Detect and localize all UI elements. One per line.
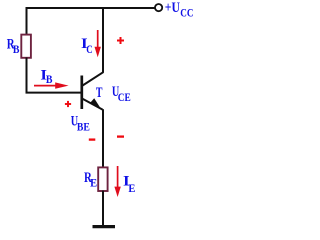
ground <box>93 225 116 228</box>
wire collector <box>102 8 104 73</box>
current arrow IE <box>117 166 119 187</box>
svg-text:E: E <box>90 176 97 190</box>
svg-text:C: C <box>86 42 92 56</box>
wire left lower <box>26 58 28 94</box>
svg-text:B: B <box>46 72 53 86</box>
minus sign emitter-right <box>117 135 124 137</box>
terminal +Ucc <box>155 4 162 11</box>
resistor RE <box>98 167 107 191</box>
transistor collector diagonal <box>82 72 103 86</box>
wire top rail <box>26 7 156 9</box>
svg-text:+U: +U <box>165 0 180 16</box>
minus sign emitter-left <box>89 138 96 140</box>
svg-text:CE: CE <box>118 90 131 104</box>
plus sign collector <box>117 40 124 42</box>
plus sign base <box>65 103 71 105</box>
wire to ground <box>102 191 104 227</box>
wire emitter <box>102 109 104 167</box>
svg-text:B: B <box>13 42 20 56</box>
current arrow IC <box>97 30 99 48</box>
wire left upper <box>26 7 28 36</box>
wire base <box>26 92 82 94</box>
transistor emitter arrow <box>90 98 101 108</box>
transistor T base bar <box>80 76 83 110</box>
svg-text:CC: CC <box>180 6 193 20</box>
svg-text:E: E <box>128 181 135 195</box>
current arrow IB <box>34 85 58 87</box>
svg-text:BE: BE <box>77 120 90 134</box>
svg-text:T: T <box>96 85 103 101</box>
resistor RB <box>21 35 31 58</box>
transistor emitter diagonal <box>82 98 103 109</box>
